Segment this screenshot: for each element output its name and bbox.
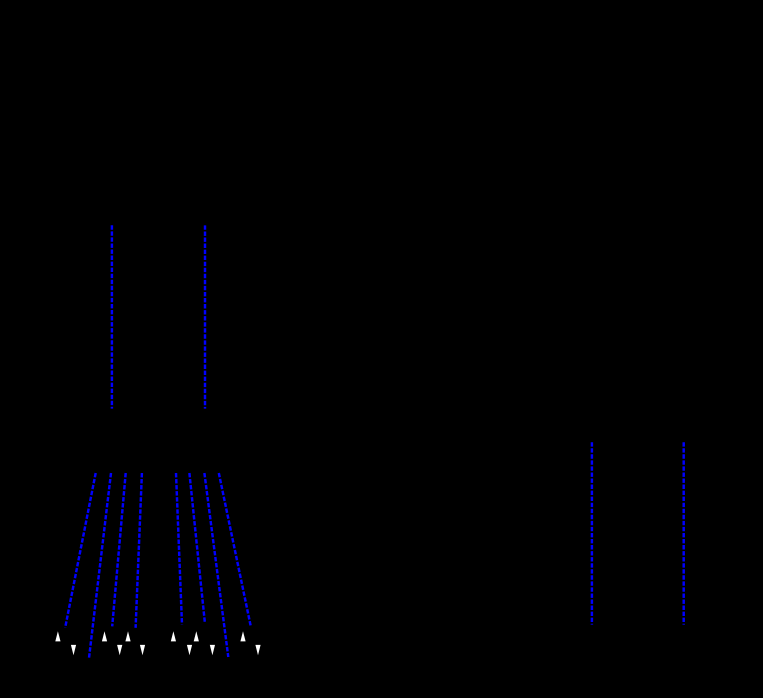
white down arrowhead 1 <box>71 645 76 655</box>
white up arrowhead 6 <box>240 631 245 641</box>
right panel dashed vertical line left <box>591 442 593 624</box>
white up arrowhead 5 <box>194 631 199 641</box>
top panel dashed vertical line left (trajectory B upper segment) <box>111 225 113 408</box>
top panel dashed vertical line right (trajectory G upper segment) <box>204 225 206 408</box>
white down arrowhead 6 <box>255 645 260 655</box>
white down arrowhead 4 <box>187 645 192 655</box>
white down arrowhead 2 <box>117 645 122 655</box>
fan dashed line F <box>189 473 205 623</box>
white down arrowhead 3 <box>140 645 145 655</box>
fan dashed line B <box>89 473 111 658</box>
white up arrowhead 2 <box>102 631 107 641</box>
white up arrowhead 3 <box>125 631 130 641</box>
fan dashed line E <box>176 473 182 624</box>
fan dashed line C <box>112 473 126 626</box>
white up arrowhead 4 <box>171 631 176 641</box>
fan dashed line H <box>219 473 251 626</box>
fan dashed line G <box>204 473 228 657</box>
fan dashed line D <box>136 473 142 628</box>
right panel dashed vertical line right <box>682 442 684 624</box>
white down arrowhead 5 <box>210 645 215 655</box>
white up arrowhead 1 <box>55 631 60 641</box>
fan dashed line A <box>65 473 96 628</box>
